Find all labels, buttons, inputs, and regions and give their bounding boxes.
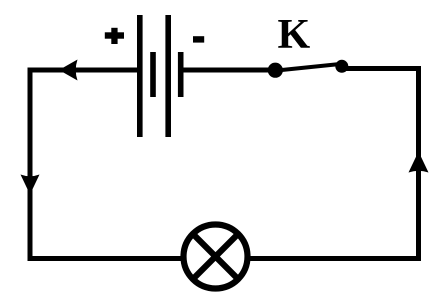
wire right vertical xyxy=(416,67,421,262)
battery short plate 2 (negative) xyxy=(178,52,184,97)
lamp cross stroke 1 xyxy=(193,234,238,279)
wire top-left segment xyxy=(28,68,140,73)
switch blade xyxy=(272,64,345,72)
battery long plate 2 xyxy=(165,15,171,137)
switch contact dot left xyxy=(268,63,283,78)
svg-text:K: K xyxy=(278,12,311,58)
wire switch-to-corner segment xyxy=(344,66,421,71)
switch contact dot right xyxy=(335,60,348,73)
lamp cross stroke 2 xyxy=(193,234,238,279)
wire bottom horizontal xyxy=(28,256,422,261)
label + (positive terminal) xyxy=(105,28,124,44)
battery long plate 1 (positive) xyxy=(137,15,143,137)
battery short plate 1 xyxy=(150,52,156,97)
arrow left on top wire xyxy=(59,60,78,81)
wire left vertical xyxy=(28,68,33,262)
arrow up on right wire xyxy=(409,152,429,173)
arrow down on left wire xyxy=(21,175,40,195)
label - (negative terminal) xyxy=(193,36,204,42)
lamp L1 (circle) xyxy=(184,225,248,289)
wire battery-to-switch segment xyxy=(181,68,271,73)
